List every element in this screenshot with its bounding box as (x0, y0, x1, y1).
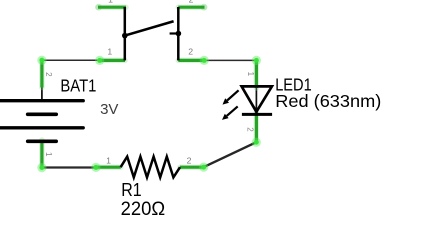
battery BAT1 symbol plates (0, 101, 83, 142)
svg-text:220Ω: 220Ω (121, 198, 166, 220)
svg-text:2: 2 (187, 155, 192, 165)
svg-text:2: 2 (246, 127, 255, 132)
battery BAT1 pin 1 leg (bottom) (39, 140, 45, 168)
resistor R1 pin 1 leg (96, 164, 121, 170)
pushbutton S1 pin 2 top leg (178, 4, 207, 11)
junction terminal battery- (37, 163, 46, 172)
junction terminal switch pin1 (95, 56, 104, 65)
junction terminal LED cathode (252, 138, 261, 147)
svg-text:1: 1 (44, 152, 53, 157)
LED1 symbol triangle (242, 86, 272, 111)
wire switch pin2 to LED anode (204, 59, 256, 61)
battery BAT1 pin 2 leg (top) (41, 60, 43, 99)
svg-text:3V: 3V (100, 101, 118, 118)
LED1 pin leg (vertical, behind symbol) (255, 60, 257, 142)
pushbutton S1 body (122, 7, 181, 60)
junction terminal resistor pin2 (199, 163, 208, 172)
svg-text:1: 1 (107, 46, 112, 56)
LED1 emission arrow 2 (222, 106, 238, 120)
wire LED cathode to resistor pin2 (204, 142, 257, 167)
pushbutton S1 pin 2 bottom leg (178, 58, 204, 64)
junction terminal LED anode (252, 56, 261, 65)
resistor R1 zigzag symbol (121, 157, 180, 178)
svg-text:1: 1 (108, 0, 113, 4)
svg-text:2: 2 (188, 47, 193, 57)
wire battery+ to switch pin1 (42, 59, 100, 61)
wire battery- to resistor pin1 (42, 166, 96, 168)
junction terminal switch pin2 (200, 56, 209, 65)
LED1 emission arrow 1 (223, 90, 239, 104)
LED1 symbol cathode bar (242, 113, 272, 116)
junction terminal resistor pin1 (91, 163, 100, 172)
svg-text:1: 1 (106, 156, 111, 166)
junction terminal battery+ (37, 56, 46, 65)
pushbutton S1 pin 1 bottom leg (100, 58, 125, 64)
resistor R1 pin 2 leg (180, 164, 204, 170)
pushbutton S1 pin 1 top leg (95, 4, 126, 11)
svg-text:BAT1: BAT1 (60, 75, 96, 95)
svg-text:Red (633nm): Red (633nm) (275, 91, 381, 111)
svg-text:2: 2 (44, 72, 53, 77)
svg-text:1: 1 (246, 72, 255, 77)
svg-text:2: 2 (189, 0, 194, 4)
